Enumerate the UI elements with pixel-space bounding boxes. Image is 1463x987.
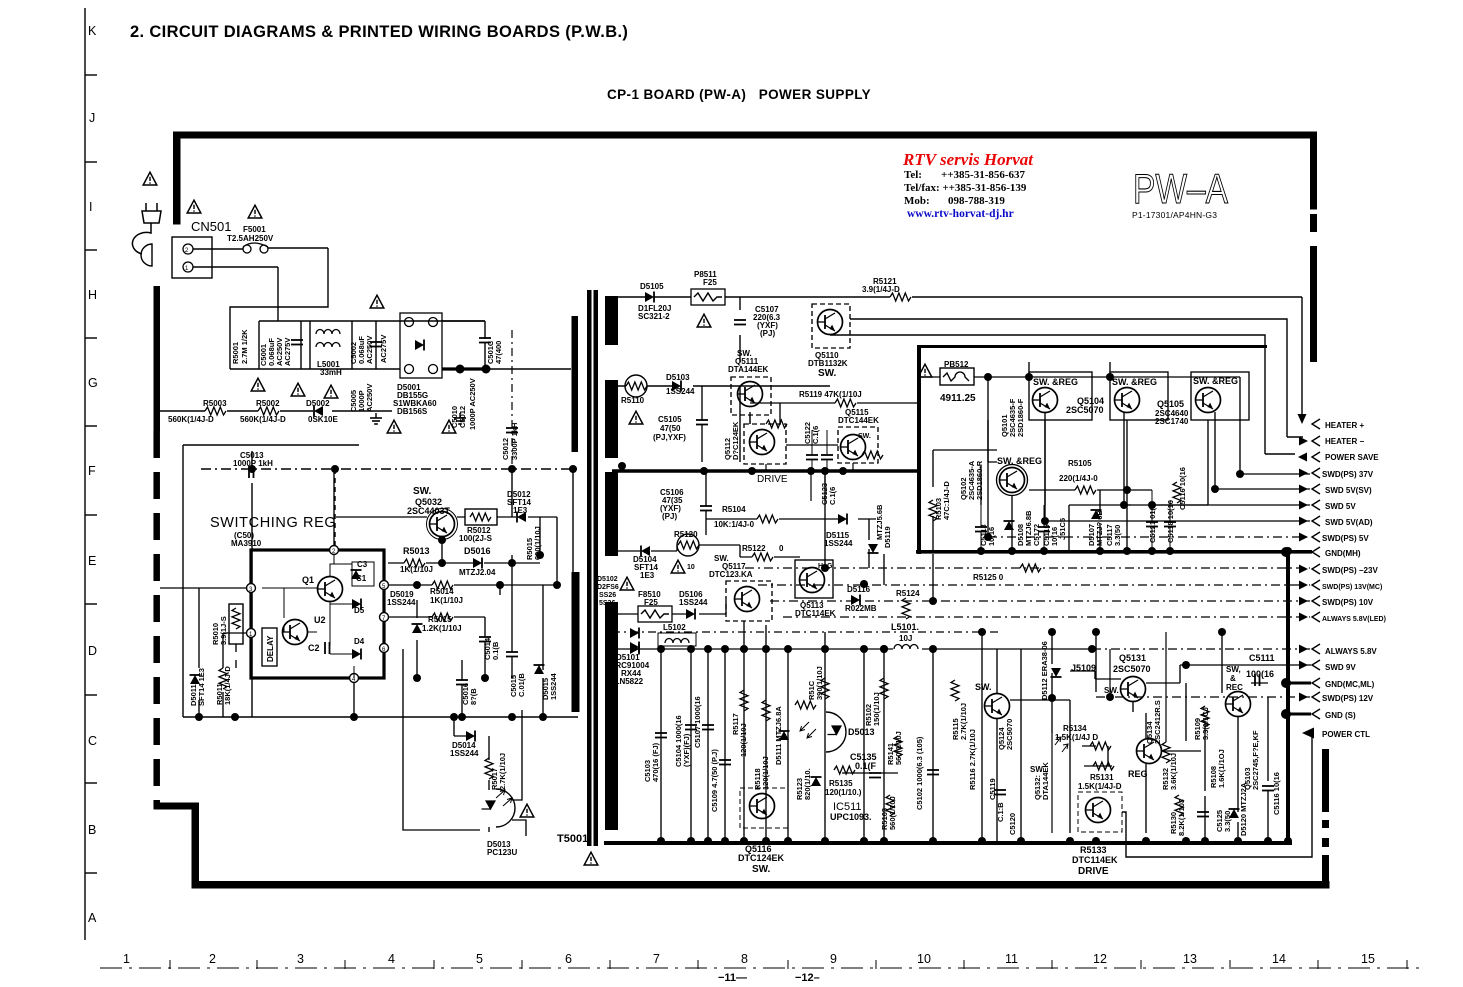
svg-text:D4: D4: [354, 637, 365, 646]
svg-text:SW. &REG: SW. &REG: [1112, 377, 1157, 387]
svg-text:C5105: C5105: [658, 415, 682, 424]
line choke L5001: [316, 330, 340, 335]
R5015b wire: [389, 600, 485, 678]
svg-text:D5119: D5119: [883, 526, 892, 548]
out GNDS: [1312, 709, 1320, 719]
svg-text:&: &: [1230, 674, 1236, 683]
vertical dash wire to IC: [334, 469, 336, 550]
wire R5121 to heater: [800, 297, 1302, 415]
R5013 row wire: [388, 540, 540, 563]
svg-text:SC321-2: SC321-2: [638, 312, 670, 321]
svg-text:POWER CTL: POWER CTL: [1322, 730, 1370, 739]
resistor R5102: [880, 678, 888, 699]
capacitor C5118: [1164, 522, 1176, 527]
svg-text:1.5K(1/4J D: 1.5K(1/4J D: [1055, 733, 1098, 742]
svg-text:3.3(50: 3.3(50: [1113, 525, 1122, 546]
bottom ruler dashed line: [100, 960, 1420, 969]
svg-text:UPC1093.: UPC1093.: [830, 812, 872, 822]
GND S wire: [1290, 713, 1311, 716]
svg-text:R5124: R5124: [896, 589, 920, 598]
svg-text:GND(MC,ML): GND(MC,ML): [1325, 680, 1375, 689]
wire heater minus: [850, 319, 1303, 437]
svg-text:C.1(6: C.1(6: [828, 487, 837, 505]
capacitor C5119b symbol: [821, 455, 833, 460]
svg-text:B: B: [88, 823, 96, 837]
out ALWAYS58LED: [1299, 613, 1308, 622]
svg-text:4911.25: 4911.25: [940, 393, 976, 404]
out SWD5VAD: [1299, 517, 1308, 526]
svg-text:−12–: −12–: [795, 972, 820, 984]
svg-text:SW: SW: [1030, 765, 1043, 774]
capacitor C5001: [291, 340, 303, 345]
svg-text:2SC5070: 2SC5070: [1066, 405, 1104, 415]
svg-text:D5013: D5013: [848, 727, 875, 737]
resistor R5010: [229, 604, 243, 644]
svg-text:1.5K(1/4J-D: 1.5K(1/4J-D: [1078, 782, 1122, 791]
SW REG box1: [1029, 372, 1092, 420]
warning left edge: [620, 577, 634, 590]
optocoupler D5013: [403, 649, 489, 830]
out SWD5VSV: [1299, 485, 1308, 494]
svg-text:Tel:: Tel:: [904, 169, 922, 181]
resistor R5141: [894, 736, 902, 757]
long dash-dot 10V: [770, 600, 1310, 602]
svg-text:D5112 ERA38-06: D5112 ERA38-06: [1040, 641, 1049, 700]
capacitor C5119: [994, 790, 1006, 795]
svg-text:1000P AC250V: 1000P AC250V: [468, 378, 477, 430]
out SWD12V: [1299, 693, 1308, 702]
svg-text:POWER SAVE: POWER SAVE: [1325, 453, 1379, 462]
svg-text:PC123U: PC123U: [487, 848, 517, 857]
svg-text:SWD 9V: SWD 9V: [1325, 663, 1356, 672]
svg-text:DRIVE: DRIVE: [1078, 866, 1109, 877]
svg-text:−11—: −11—: [718, 972, 747, 984]
capacitor C5116b: [1173, 482, 1181, 503]
ground symbol filter2: [454, 413, 466, 424]
svg-text:HEATER −: HEATER −: [1325, 437, 1365, 446]
svg-text:098-788-319: 098-788-319: [948, 195, 1005, 207]
capacitor C5010: [479, 338, 491, 343]
svg-text:10J: 10J: [899, 634, 912, 643]
svg-text:D5103: D5103: [666, 373, 690, 382]
capacitor C5113: [975, 527, 987, 532]
svg-text:(PJ): (PJ): [760, 329, 775, 338]
svg-text:AC250V: AC250V: [365, 336, 374, 364]
wire D5103 row: [618, 386, 830, 462]
svg-text:SW.: SW.: [818, 368, 837, 379]
IC pin top: [330, 546, 339, 555]
wire power save: [830, 334, 1295, 454]
diodes D5102: [630, 628, 639, 639]
svg-text:CN501: CN501: [191, 219, 231, 234]
capacitor C5125: [1197, 812, 1209, 817]
svg-text:R5131: R5131: [1090, 773, 1114, 782]
svg-text:U2: U2: [314, 615, 326, 625]
optocoupler D5013b: [826, 712, 846, 752]
svg-text:C1: C1: [356, 574, 367, 583]
svg-text:SWD(PS) 10V: SWD(PS) 10V: [1322, 598, 1374, 607]
R5131: [1093, 762, 1114, 770]
svg-text:R5105: R5105: [1068, 459, 1092, 468]
svg-text:R5133: R5133: [1080, 845, 1107, 855]
primary block outline top: [183, 445, 578, 717]
svg-text:2: 2: [209, 952, 216, 966]
svg-text:L5101.: L5101.: [891, 622, 919, 632]
svg-text:T5001: T5001: [557, 833, 588, 845]
svg-text:3300P 1kH: 3300P 1kH: [510, 423, 519, 460]
svg-text:13: 13: [1183, 952, 1197, 966]
capacitor C5109: [719, 760, 731, 765]
capacitor C5015: [506, 652, 518, 657]
svg-text:R5122: R5122: [742, 544, 766, 553]
svg-text:6: 6: [565, 952, 572, 966]
capacitor C5012 symbol: [511, 330, 513, 464]
staircase wires to outputs: [988, 377, 1310, 537]
IC outline box: [251, 550, 384, 678]
svg-text:C5121 01(6: C5121 01(6: [1148, 504, 1157, 543]
long dash-dot -23V: [745, 567, 1310, 569]
zener D5108: [1004, 521, 1015, 530]
svg-text:HEATER +: HEATER +: [1325, 421, 1365, 430]
capacitor C5121: [1146, 522, 1158, 527]
svg-text:ALWAYS 5.8V(LED): ALWAYS 5.8V(LED): [1322, 616, 1386, 623]
resistor R5135: [834, 766, 855, 774]
diode D5104: [641, 546, 650, 557]
DRIVE bus: [612, 469, 920, 473]
zener D5111: [779, 731, 790, 740]
svg-text:SW. &REG: SW. &REG: [997, 456, 1042, 466]
capacitor C5107b: [702, 725, 714, 730]
warning left of PB512: [918, 364, 932, 377]
svg-text:D5102: D5102: [597, 576, 618, 583]
svg-text:H: H: [88, 288, 97, 302]
extra verticals botright: [1052, 632, 1222, 833]
svg-text:2SC2412R.S: 2SC2412R.S: [1153, 700, 1162, 744]
svg-text:1N5822: 1N5822: [615, 677, 644, 686]
transistor Q5110 box: [812, 304, 850, 348]
wire SWD(PS)5V dash: [988, 536, 1310, 538]
R5003 row wire: [160, 410, 392, 412]
svg-text:SWD 5V(AD): SWD 5V(AD): [1325, 518, 1373, 527]
svg-text:DTC114EK: DTC114EK: [1072, 855, 1118, 865]
svg-text:C5107 1000(16: C5107 1000(16: [693, 696, 702, 748]
svg-text:560K(1/4J-D: 560K(1/4J-D: [240, 415, 286, 424]
capacitor C5016: [456, 680, 468, 685]
svg-text:C5120: C5120: [1008, 813, 1017, 835]
svg-text:DTC144EK: DTC144EK: [838, 416, 879, 425]
T5001 primary winding bars: [572, 316, 579, 452]
junction dots swreg: [195, 713, 203, 721]
Q5131 wires: [1070, 671, 1180, 712]
svg-text:1SS244: 1SS244: [450, 749, 479, 758]
wire plug to line filter: [193, 248, 328, 369]
warning near opto: [520, 804, 534, 817]
svg-text:Q5105: Q5105: [1157, 399, 1184, 409]
transistor Q5032: [430, 512, 455, 537]
zener D5120: [1229, 809, 1240, 818]
svg-text:F5001: F5001: [243, 225, 266, 234]
svg-text:R5002: R5002: [256, 399, 280, 408]
bridge rectifier D5001: [400, 313, 442, 378]
svg-text:R5013: R5013: [403, 546, 430, 556]
svg-text:C5119: C5119: [988, 778, 997, 800]
junction dots transformer secondary: [605, 645, 613, 653]
svg-text:820(1/10.: 820(1/10.: [803, 768, 812, 800]
ground symbol filter1: [370, 413, 382, 424]
svg-text:2SC5070: 2SC5070: [1005, 719, 1014, 750]
svg-text:SWITCHING REG: SWITCHING REG: [210, 515, 336, 531]
svg-text:GND (S): GND (S): [1325, 711, 1356, 720]
Q5032 row wire: [336, 517, 557, 585]
svg-text:3: 3: [297, 952, 304, 966]
zener D5119 MTZJ5.6B: [868, 544, 879, 553]
long dash-dot 13V: [758, 584, 1310, 586]
capacitor C5115: [1038, 527, 1050, 532]
svg-text:8.2K(1/10J: 8.2K(1/10J: [1177, 799, 1186, 836]
svg-text:D5105: D5105: [640, 282, 664, 291]
svg-text:9: 9: [830, 952, 837, 966]
svg-text:2.7K(1/10J: 2.7K(1/10J: [498, 753, 507, 790]
warning R5120: [671, 560, 685, 573]
fuse F5001 symbol: [243, 245, 251, 253]
bottom right wires: [1070, 632, 1268, 841]
transistor Q5109: [985, 694, 1010, 719]
svg-text:DTA144EK: DTA144EK: [728, 365, 769, 374]
svg-text:(PJ): (PJ): [662, 512, 677, 521]
ALWAYS58 dash to arrow: [1092, 648, 1310, 650]
svg-text:10K:1/4J-0: 10K:1/4J-0: [714, 520, 755, 529]
svg-text:E: E: [88, 554, 96, 568]
IC511: [811, 777, 822, 786]
dashed box Q5116: [740, 788, 788, 828]
svg-text:SWD(PS) 13V(MC): SWD(PS) 13V(MC): [1322, 584, 1382, 591]
frame right-bottom dashed edge: [1322, 749, 1329, 812]
svg-text:REG: REG: [1128, 769, 1148, 779]
resistor R5103b: [886, 795, 894, 816]
svg-text:2SD1860-F: 2SD1860-F: [1016, 398, 1025, 437]
reg wires vertical: [933, 420, 1208, 551]
svg-text:DTC124EK: DTC124EK: [738, 853, 785, 863]
winding resistor R5110: [625, 375, 647, 397]
svg-text:G: G: [88, 376, 98, 390]
svg-text:1.6K(1/1OJ: 1.6K(1/1OJ: [1217, 749, 1226, 788]
svg-text:R022MB: R022MB: [845, 604, 877, 613]
svg-text:SW. &REG: SW. &REG: [1033, 377, 1078, 387]
svg-text:R5110: R5110: [621, 396, 645, 405]
svg-text:1.2K(1/10J: 1.2K(1/10J: [422, 624, 462, 633]
svg-text:2.7M 1/2K: 2.7M 1/2K: [240, 329, 249, 364]
svg-text:C3: C3: [357, 560, 368, 569]
frame left dashed edge: [154, 286, 161, 431]
svg-text:C2: C2: [308, 643, 320, 653]
transformer T5001 core: [587, 290, 592, 846]
diode D5015: [534, 665, 545, 674]
out HEATER-: [1299, 437, 1308, 446]
svg-text:P1-17301/AP4HN-G3: P1-17301/AP4HN-G3: [1132, 210, 1217, 220]
svg-text:R5134: R5134: [1063, 724, 1087, 733]
capacitor C5013 symbol: [249, 466, 254, 478]
svg-text:D5002: D5002: [306, 399, 330, 408]
bottom junction dots: [657, 837, 665, 845]
out SWDPS5V: [1299, 533, 1308, 542]
svg-text:(PJ,YXF): (PJ,YXF): [653, 433, 686, 442]
frame bottom-left step: [154, 803, 199, 810]
capacitor C5014: [479, 637, 491, 642]
transistor Q5132: [1137, 739, 1162, 764]
IC pin left: [247, 584, 256, 593]
bottom ruler numbers: [123, 952, 1375, 966]
svg-text:SWD(PS) 37V: SWD(PS) 37V: [1322, 470, 1374, 479]
svg-text:R5104: R5104: [722, 505, 746, 514]
svg-text:SWD(PS) 12V: SWD(PS) 12V: [1322, 694, 1374, 703]
ruler ticks: [85, 75, 97, 873]
svg-text:A: A: [88, 911, 97, 925]
svg-text:F: F: [88, 464, 96, 478]
wire top secondary rail: [618, 297, 800, 362]
out ALWAYS58: [1299, 645, 1308, 654]
svg-text:10: 10: [687, 564, 695, 571]
IC pin right2: [380, 613, 389, 622]
svg-text:1E3: 1E3: [640, 571, 655, 580]
svg-text:++385-31-856-637: ++385-31-856-637: [941, 169, 1026, 181]
T5001 secondary winding bars: [605, 296, 618, 345]
svg-text:3.3(50: 3.3(50: [1223, 811, 1232, 832]
GND MC ML wire: [1290, 682, 1311, 685]
svg-text:C5012: C5012: [501, 438, 510, 460]
svg-text:R5135: R5135: [829, 779, 853, 788]
svg-text:SW.: SW.: [975, 682, 992, 692]
svg-text:GND(MH): GND(MH): [1325, 549, 1361, 558]
resistor R5017: [485, 758, 493, 779]
line filter rails: [230, 321, 485, 369]
svg-text:3.9(1/4J-D: 3.9(1/4J-D: [862, 285, 900, 294]
svg-text:SW,: SW,: [1226, 665, 1241, 674]
svg-text:47C:1/4J-D: 47C:1/4J-D: [942, 481, 951, 520]
svg-text:150(1/10J: 150(1/10J: [872, 692, 881, 726]
svg-text:D: D: [88, 644, 97, 658]
svg-text:DRIVE: DRIVE: [757, 474, 788, 485]
warning triangles primary: [143, 172, 157, 185]
svg-text:C5111: C5111: [1249, 653, 1275, 663]
svg-text:100(2J-S: 100(2J-S: [459, 534, 493, 543]
regulator box left edge: [917, 345, 921, 554]
svg-text:J: J: [89, 111, 95, 125]
svg-text:1SS244: 1SS244: [666, 387, 695, 396]
svg-text:SWD 5V: SWD 5V: [1325, 502, 1356, 511]
SW REG box2: [1110, 372, 1168, 420]
svg-text:D?C124EK: D?C124EK: [731, 421, 740, 460]
SW REG box3: [1191, 372, 1249, 420]
svg-text:0.1(B: 0.1(B: [491, 641, 500, 660]
dashed box R5133: [1078, 792, 1122, 832]
diode D5101 pair: [630, 644, 639, 655]
svg-text:R5116 2.7K(1/10J: R5116 2.7K(1/10J: [968, 729, 977, 790]
svg-text:33mH: 33mH: [320, 368, 342, 377]
IC internal wires: [262, 555, 354, 678]
SWD PS 12V dash: [1096, 696, 1310, 698]
svg-text:1K(1/10J: 1K(1/10J: [430, 596, 463, 605]
out HEATER+: [1312, 419, 1320, 429]
svg-text:D5111 MTZJ6.8A: D5111 MTZJ6.8A: [774, 706, 783, 765]
SWD9V wire: [1180, 665, 1311, 683]
svg-text:12: 12: [1093, 952, 1107, 966]
svg-text:DB156S: DB156S: [397, 407, 428, 416]
vertical wires upper: [744, 475, 933, 649]
svg-text:470(16 (FJ): 470(16 (FJ): [651, 742, 660, 782]
svg-text:10: 10: [917, 952, 931, 966]
resistor R5109: [1201, 706, 1209, 727]
svg-text:14: 14: [1272, 952, 1286, 966]
svg-text:2. CIRCUIT DIAGRAMS & PRINTED: 2. CIRCUIT DIAGRAMS & PRINTED WIRING BOA…: [130, 23, 628, 41]
wire above drive: [700, 467, 708, 475]
bottom rail wires: [199, 716, 354, 718]
svg-text:0.1(F: 0.1(F: [855, 761, 877, 771]
svg-text:560K(1/4J-D: 560K(1/4J-D: [168, 415, 214, 424]
svg-text:R5125 0: R5125 0: [973, 573, 1004, 582]
resistor R5012 box: [465, 509, 497, 525]
svg-text:560(1/10J: 560(1/10J: [894, 731, 903, 765]
out -23V: [1299, 565, 1308, 574]
right thick vertical: [1286, 552, 1290, 843]
svg-text:7: 7: [653, 952, 660, 966]
left ruler line: [84, 8, 86, 940]
out 10V: [1299, 597, 1308, 606]
svg-text:R5120: R5120: [674, 530, 698, 539]
svg-text:1SS244: 1SS244: [387, 598, 416, 607]
svg-text:C: C: [88, 734, 97, 748]
svg-text:47(400: 47(400: [494, 341, 503, 364]
bridge DC output wire: [442, 367, 490, 370]
svg-text:3.6K(1/10J: 3.6K(1/10J: [1169, 753, 1178, 790]
svg-text:1SS244: 1SS244: [824, 539, 853, 548]
svg-text:L5102: L5102: [663, 623, 686, 632]
DELAY box: [262, 628, 277, 666]
svg-text:1K(1/10J: 1K(1/10J: [400, 565, 433, 574]
warning under P8511: [697, 314, 711, 327]
svg-text:C5116 10(16: C5116 10(16: [1272, 772, 1281, 815]
diode D5011: [190, 675, 201, 684]
block H.G: [795, 560, 833, 598]
capacitor C5122 symbol: [806, 455, 818, 460]
svg-text:Mob:: Mob:: [904, 195, 930, 207]
svg-text:www.rtv-horvat-dj.hr: www.rtv-horvat-dj.hr: [907, 208, 1014, 220]
svg-text:ALWAYS 5.8V: ALWAYS 5.8V: [1325, 647, 1377, 656]
svg-text:F25: F25: [703, 278, 717, 287]
svg-text:R5003: R5003: [203, 399, 227, 408]
frame top edge: [173, 132, 1317, 139]
svg-text:T2.5AH250V: T2.5AH250V: [227, 234, 274, 243]
zener D5107: [1091, 510, 1102, 519]
frame top-left stub: [173, 132, 181, 225]
IC pin right3: [380, 644, 389, 653]
frame bottom edge: [192, 881, 1330, 889]
svg-text:AC275V: AC275V: [283, 338, 292, 366]
svg-text:1: 1: [123, 952, 130, 966]
L5101 line dash: [612, 631, 1000, 633]
wire to POWER CTL: [1122, 737, 1312, 857]
svg-text:AC250V: AC250V: [365, 384, 374, 412]
long dash-dot 5.8Vled: [783, 616, 1310, 618]
vertical wires from bus 649: [661, 632, 1021, 841]
out POWER SAVE: [1298, 453, 1307, 462]
svg-text:DELAY: DELAY: [266, 635, 275, 662]
capacitor C5104: [685, 725, 697, 730]
svg-text:0: 0: [779, 544, 784, 553]
svg-text:CP-1 BOARD (PW-A) POWER SUPP: CP-1 BOARD (PW-A) POWER SUPPLY: [607, 87, 871, 102]
wires around IC left: [160, 588, 246, 717]
svg-text:120(1/10J: 120(1/10J: [761, 756, 770, 790]
svg-text:RTV servis Horvat: RTV servis Horvat: [902, 150, 1034, 169]
